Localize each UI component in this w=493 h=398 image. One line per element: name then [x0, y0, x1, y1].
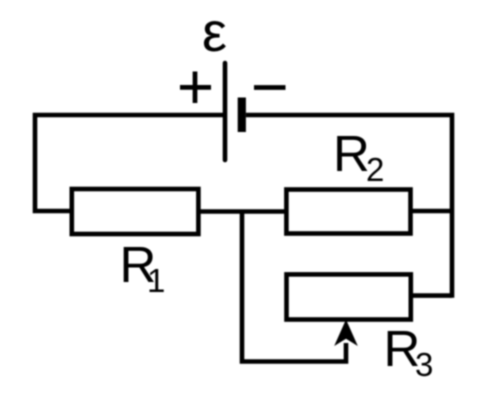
- resistor R3 (rheostat): [287, 274, 411, 319]
- wire R2 right to right rail: [411, 209, 453, 214]
- resistor R2: [286, 190, 410, 234]
- minus sign label: [254, 85, 286, 90]
- svg-text:ε: ε: [202, 0, 227, 63]
- svg-text:R: R: [333, 125, 370, 182]
- wire from battery positive plate left and down to R1: [35, 115, 225, 211]
- svg-text:3: 3: [415, 346, 433, 383]
- battery negative plate (short thick): [238, 98, 246, 133]
- wire R3 right to right rail: [411, 293, 452, 298]
- plus sign label: [180, 72, 211, 104]
- battery positive plate (long): [223, 63, 228, 160]
- wire R1 to R2: [198, 209, 286, 214]
- svg-text:1: 1: [147, 262, 165, 299]
- wiper arrowhead of R3: [334, 320, 358, 347]
- wire from battery negative plate right and down right rail: [246, 115, 452, 298]
- svg-text:2: 2: [366, 151, 384, 188]
- wire from junction node down and across to wiper: [242, 212, 346, 362]
- resistor R1: [72, 189, 199, 234]
